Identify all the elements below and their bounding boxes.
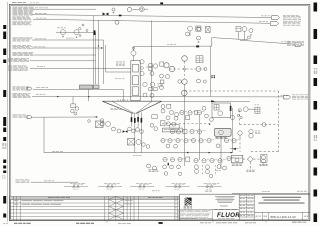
wire line y101.5 right of furnace [161,101,251,103]
stack bubbles A [194,165,198,169]
wire vessel inlet riser [133,46,135,50]
right margin registration mark [314,150,318,159]
connector pentagon E2 [271,22,279,26]
instrument bubble RB2 stack [249,129,253,133]
instrument bubble S2 [75,107,79,111]
wire jog up at corner [211,38,213,47]
connector label block E1 [283,14,286,17]
instrument bubble RA1 [243,107,248,112]
wire field riser x199 low [199,115,201,160]
small bubble RA1b [238,109,241,112]
furnace top tick [122,99,124,101]
right margin registration mark [314,168,318,176]
stream label block 9 [8,65,12,68]
title block outline [180,194,310,220]
legend item valve [107,185,109,187]
instrument bubble RB1 [238,131,242,135]
inline blind [119,15,122,17]
label RB [255,130,257,133]
relief valve PSV double circle [139,7,144,12]
bubble field r5c [216,144,220,148]
instrument bubble G1c [153,64,157,68]
ref text top left margin 2 [30,2,32,5]
cross-header inline label [167,43,169,46]
stream label block 2 [13,11,18,14]
legend item text above 2 [207,183,209,185]
fold tick 1 [106,221,108,222]
title block inner divider vertical [211,209,213,220]
wire RB drop [239,135,241,138]
gauge box G1b [149,64,153,67]
legend item text below [174,187,176,189]
approval row line [239,207,254,209]
signal dashed drop RCd [249,162,251,169]
equipment label box text [164,128,167,131]
cluster N1 box [167,104,171,108]
svg-text:FLUOR: FLUOR [217,212,240,219]
title block divider x254 [253,194,255,220]
stack bubbles B [205,165,209,169]
wire RA to analyzer [248,108,255,110]
legend item text above 2 [139,183,142,185]
wire valve line [56,31,96,33]
left margin note text [2,142,4,145]
revision zigzag strike A [109,200,116,203]
legend item text below 2 [139,188,141,190]
instrument bubble G2e [150,94,154,98]
legend item line [64,185,88,187]
valve station box [152,115,157,119]
bubble field r4a [161,138,165,142]
revision row number marks [14,200,16,203]
instrument bubble S4 [74,112,77,115]
wire stream 13 [31,181,78,183]
control valve PV-2 with actuator [74,30,79,35]
black tick r7 [168,163,169,166]
instrument bubble M1 [164,63,169,68]
line number label 9 [37,65,39,68]
line number label 13 [44,180,47,183]
instrument bubble G2a [143,82,147,86]
instrument bubble on dashed line [262,123,266,127]
title block inner divider horizontal [180,208,240,210]
inline note text [66,37,69,40]
left margin registration mark [3,214,6,218]
legend item text above 2 [175,183,178,185]
burner bubble 1 [128,127,132,131]
line number label 12 [52,150,55,153]
fitting bubbles RA [237,114,239,116]
wire stream 9 to converter [30,67,131,69]
exchanger E-1 bundle circle [219,130,224,135]
revision table row line [10,215,180,217]
revision table header fill [10,196,180,199]
instrument bubble FT-A [186,32,190,36]
stream label block 7 [13,51,17,54]
exchanger E-1 shell [215,128,232,136]
instrument bubble G2b [150,82,154,86]
instrument bubble M2 [160,74,164,78]
dwg cell divider [267,212,269,220]
stream label block 6 [13,44,17,47]
left margin registration mark [3,49,6,56]
catalyst bed 3 [132,87,138,96]
bubble field r2d [231,116,235,120]
signal dash stub A [202,165,204,176]
legend item text above 2 [107,183,110,185]
furnace hopper slope left [103,101,134,113]
gauge field r2c [186,116,190,120]
revision table column line mid [104,196,106,220]
wire stream 3 / header B [33,19,270,23]
signal dash stub B [215,165,217,176]
wire header D to connector [240,40,295,44]
instrument bubble B2b [136,140,141,145]
revision check marks column [174,199,176,202]
block valve on riser (filled) [94,30,96,35]
diamond logic symbol [247,156,253,162]
legend item text below [206,187,209,189]
bubble field r1b [188,111,192,115]
revision date cells text [125,199,127,202]
catalyst bed 2 [132,76,138,85]
tiny text top centre margin [152,190,155,193]
horizontal drum D-2 (grey) [93,85,99,89]
bubble field r6i [227,156,231,160]
instrument bubble G1y [140,71,144,75]
instrument bubble PI [127,7,132,12]
approval rows divider mid [246,194,248,217]
furnace hopper slope right [136,101,162,113]
riser x95.5 [95,32,97,84]
analyzer box B1 [128,139,135,146]
vessel top vent bubble [132,47,134,49]
fold tick 3 [265,221,267,222]
instrument bubble A4 [117,129,121,133]
label text G2 [158,82,161,85]
furnace top tick [126,99,128,101]
burner bubble 4 [140,130,144,134]
revision table row line [10,202,180,204]
approved stamp text [76,222,79,225]
wire field riser x232 low [232,108,234,152]
revision zigzag strike B [116,206,124,209]
gauge field r3d [183,130,187,134]
fold tick 2 [212,221,214,222]
title block divider x239 [238,194,240,220]
fitting bubble under stream12 [88,120,91,123]
line number label 6 [34,46,38,49]
bubble field r1d [197,110,201,114]
bus arrow mark [98,46,99,48]
small bubble under stack B [209,174,212,177]
vent cross B2 [198,41,200,43]
label RA3 [255,104,257,107]
wire riser x44 [43,117,45,152]
left margin registration mark [3,25,6,29]
left margin registration mark [3,196,6,204]
right margin registration mark [314,56,318,65]
exchanger label [216,136,219,139]
right margin registration mark [314,3,318,12]
cad text [263,215,264,218]
wire riser x210.5 [210,46,212,96]
flow arrow main pipe mid [209,152,211,154]
line number label E1 [261,15,264,18]
bubble field r1h [210,118,214,122]
bubble left edge b [172,122,176,126]
wire stream 11 long [32,96,284,98]
revision header text right [148,196,151,199]
disclaimer paragraph text [178,209,186,211]
instrument bubble A2 [106,122,111,127]
wire drop C [244,31,246,40]
wire stream 7 [34,54,96,56]
signal dashed RC [253,158,260,160]
left margin note text 2 [2,175,3,178]
equipment label above drum [115,78,118,81]
gauge box M0 [160,62,164,66]
burner drop 2 [134,113,136,153]
note text above title block [205,190,208,193]
revision table column line mid [115,196,117,220]
revision zigzag strike A [109,206,116,209]
instrument bubble FI-A [188,26,193,31]
analyzer box A1 [96,121,104,128]
revision zigzag strike B [116,196,124,199]
revision table column line left [16,196,18,220]
line number label 2 [35,12,38,15]
gauge field r1c [194,111,197,115]
approval row line [239,197,254,199]
small bubble M16 [203,80,206,83]
legend item line [130,185,154,187]
legend item text below 2 [175,188,177,190]
signal dashed line y124.5 [240,124,279,126]
equipment label box field [162,128,182,132]
revision zigzag strike A [109,216,116,219]
bubble field r1g [205,114,209,118]
top margin centre mark [160,2,163,4]
bubble field r2a [166,116,170,120]
legend item text below [106,187,108,189]
legend item text above [136,182,139,185]
revision header text left [48,196,54,199]
instrument bubble pair bottom [147,164,151,168]
stamp text bottom 3 [245,222,249,225]
wire header right to cluster C [212,38,248,40]
wire drop to sample box [72,97,74,104]
wire stream 1 [33,8,96,10]
left margin registration mark [3,137,6,141]
bottom margin centre mark [159,222,163,224]
revision row 1 text [22,200,33,203]
recorder box C [236,27,241,32]
revision zigzag strike B [116,200,124,203]
bubble field r4b [168,139,172,143]
filled valve bowtie left of burners [123,130,128,133]
header B drop riser [98,21,100,85]
analyzer box RA3 with grid [255,107,260,113]
as-built stamp text [14,222,18,225]
left margin registration mark [3,160,6,164]
drawing title line 1 [262,196,301,199]
scale text [255,215,258,218]
revision table column line mid [130,196,132,220]
approval row line [239,203,254,205]
gauge box right of arrow [101,122,104,125]
bubble field r4i [232,139,236,143]
left margin registration mark [3,171,6,174]
signal dashed riser x184.5 [184,61,186,79]
revision table column line mid [123,196,125,220]
stream label block 12 [13,114,17,117]
instrument bubble B3b [142,143,146,147]
right margin note text [314,134,315,137]
filter package bottom bubble [218,111,223,116]
revision zigzag strike B [116,216,124,219]
bubble field r4c [176,138,180,142]
burner bubble 3 [136,128,140,132]
bubble field r7h [223,166,227,170]
stream label block 4 [13,21,18,24]
signal dashed RB3 [243,158,248,160]
legend item text below 2 [107,188,109,190]
instrument bubble M14 bold [182,90,188,96]
connector pentagon 12 [27,116,32,119]
left margin edge line [7,2,9,222]
line number label F [281,94,283,97]
wire stream 12 [31,116,98,118]
revision table column line mid [133,196,135,220]
bubble field r7g [217,165,221,169]
line number label D [281,41,283,44]
filter package grid box [214,105,219,111]
instrument bubble M12 bold [182,79,187,84]
riser x103.4 [102,40,104,84]
flow arrow stream 11 [57,96,59,98]
revision table row line [10,209,180,211]
rev cell divider [302,212,304,220]
junction valve pair [103,13,109,16]
legend item text below [138,187,140,189]
legend item text above [104,182,107,185]
small bubble M11 [204,68,207,71]
bubble field r1a [180,110,184,114]
instrument bubble M10 [196,67,201,72]
furnace label text [111,107,113,110]
vessel inlet valve circle [131,51,136,56]
revision zigzag strike B [116,203,124,206]
diamond fitting G1x [140,66,144,70]
logo caption text [184,205,186,208]
left margin registration mark [3,117,6,126]
wire riser x151.5 [151,20,153,101]
filter package box [212,103,231,117]
bubble field r5b [174,144,178,148]
legend item text above [204,182,208,185]
legend item valve [207,185,209,187]
connector label block D [287,40,291,43]
approval rows values text [247,194,250,197]
bubble field r1e [202,106,206,110]
wire gap dash [133,8,140,10]
wire to riser [144,8,148,10]
equipment label box [170,125,179,128]
revision zigzag strike B [116,213,124,216]
revision zigzag strike A [109,196,116,199]
wire stream 10 to drum [33,88,124,90]
Fluor corporate logo square (diagonal stripes) [185,198,192,206]
approval row line [239,200,254,202]
black valve on cross-header [196,45,199,47]
instrument bubble C1 [242,27,247,32]
furnace hopper slope inner left [112,101,135,113]
FLUOR registered mark [239,216,240,217]
bubble field r4e [191,138,195,142]
wire cross-header y46.5 [134,45,212,47]
legend item valve [175,185,177,187]
left margin registration mark [3,166,6,169]
legend small text far [215,169,218,172]
line number label E2 [259,20,262,23]
bubble field r4f [199,139,203,143]
instrument bubble B4b [146,145,150,149]
line number label 11 [36,93,39,96]
vessel label text [116,61,118,64]
line number label 10 [36,86,40,89]
signal dashed line y91 [185,90,279,92]
connector pentagon E1 [272,16,280,20]
revision table column line left [19,196,21,220]
revision table row line [10,205,180,207]
bubble field r7a [163,165,167,169]
label RC2 [260,163,262,166]
legend item line [98,185,122,187]
file path text bottom [118,222,121,225]
connector pentagon 10 [27,87,32,90]
signal dashed drop RA [239,110,241,125]
vent cross [113,12,115,14]
recorder box A [196,26,201,31]
revision table row line [10,199,180,201]
right margin registration mark [314,29,318,39]
separator dash [220,205,228,207]
burner drop 4 [140,113,142,153]
wire field riser x221 low [220,136,222,169]
vent cross C [250,34,252,36]
converter vessel R-1 shell [131,61,140,101]
analyzer bubble stack RC [261,155,267,163]
left margin registration mark [3,32,6,40]
signal dashed drop RB [239,138,241,152]
ref text top left margin [12,1,16,4]
wire main pipe y152.6 [44,152,233,154]
sample box S1 [71,104,76,108]
furnace top tick [117,99,119,101]
fitting bubble bus c [79,35,81,37]
cluster N2 bubbles [170,111,174,115]
legend item line [198,185,222,187]
wire stub at sample system [230,148,239,150]
bubble field r4g [207,138,211,142]
wire G1 tails [146,66,149,68]
bubble field r3e [190,129,194,133]
cluster N1 bubble2 [161,109,165,113]
valve station label [57,27,60,30]
legend item line [166,185,190,187]
legend item valve [139,185,141,187]
